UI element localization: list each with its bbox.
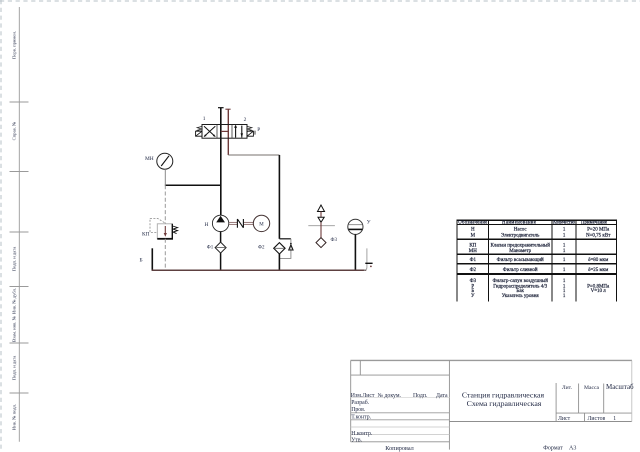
bypass check valve [289,243,293,250]
svg-text:Инв. № подл.: Инв. № подл. [12,404,17,430]
svg-text:МН: МН [145,156,154,162]
svg-text:МН: МН [469,249,477,254]
wire: drain line above relief valve (dash-dot) [164,185,166,224]
table designation column [469,227,477,299]
svg-text:Ф2: Ф2 [258,245,265,250]
right edge [631,361,633,422]
tank right port tick [365,262,372,264]
svg-text:Утв.: Утв. [351,438,362,444]
wire: return horizontal run [228,154,279,156]
paper edge dashed top [0,0,640,2]
wire: branch to gauge and relief valve [165,184,221,186]
svg-text:Р=20 МПа: Р=20 МПа [587,227,610,232]
left block row lines [351,397,450,399]
left margin ticks [10,102,29,393]
svg-text:Подп. и дата: Подп. и дата [12,356,17,381]
svg-text:δ=25 мкм: δ=25 мкм [588,268,609,273]
tank right wall [364,248,367,270]
table note column [586,227,611,294]
wire: F2 to tank [278,254,280,270]
svg-text:Обозначение: Обозначение [458,221,487,226]
svg-text:Пров.: Пров. [351,407,366,413]
shaft coupling [229,222,253,224]
svg-text:Примечание: Примечание [581,221,607,226]
svg-text:КП: КП [469,244,476,249]
svg-text:Манометр: Манометр [509,249,531,254]
list row texts [558,416,616,422]
svg-text:У: У [471,294,475,299]
svg-text:Копировал: Копировал [385,445,413,452]
table verticals [456,220,458,301]
svg-text:Фильтр сливной: Фильтр сливной [503,268,538,273]
coupling N symbol [237,219,243,228]
svg-text:1: 1 [613,416,616,422]
line above list row [556,412,632,414]
line under list row [449,421,631,423]
valve right spring [247,126,252,131]
svg-text:Ф2: Ф2 [470,268,477,273]
svg-text:Справ. №: Справ. № [12,121,17,140]
pump N [212,215,228,231]
svg-text:Инв. № дубл.: Инв. № дубл. [12,288,17,314]
table line under F2 row [457,273,618,275]
table header underline [457,223,618,225]
valve left position crossed arrows [204,126,215,136]
svg-text:Электродвигатель: Электродвигатель [501,233,540,238]
relief valve pilot line (dashed) [150,218,164,232]
wire: gauge stem [164,169,166,185]
svg-text:Изм.Лист: Изм.Лист [351,393,375,399]
filter F2 [274,243,285,254]
manometer MN [157,153,173,169]
title block bottom (left part) [351,441,450,443]
wire: port A line through valve down to pump [218,108,224,216]
svg-text:Подп. и дата: Подп. и дата [12,247,17,272]
svg-text:Т.контр.: Т.контр. [351,415,371,421]
svg-text:Р: Р [257,127,260,133]
valve right position parallel arrows [234,125,243,138]
relief valve KP body [157,224,173,239]
svg-text:Формат: Формат [543,445,563,451]
title block izm column stub [359,361,361,376]
table qty column [563,227,566,299]
table line under MN row [457,253,618,255]
wire: drain below relief valve (dash-dot) [164,239,166,270]
list/listov divider [584,413,586,421]
svg-text:А3: А3 [569,445,576,451]
svg-text:Масштаб: Масштаб [606,383,634,391]
svg-text:Наименование: Наименование [502,221,536,226]
level gauge U [348,219,363,234]
svg-text:М: М [471,233,476,238]
F2 bypass loop [279,238,291,240]
svg-text:Перв. примен.: Перв. примен. [12,31,17,59]
wire: return drop to filter F2 [278,155,280,239]
svg-text:Ф1: Ф1 [470,258,477,263]
wire: port B line through valve [225,109,230,155]
svg-text:Количество: Количество [553,221,576,226]
tank lid line [308,225,335,227]
svg-text:Н: Н [471,227,475,232]
wire: pump suction [220,232,222,243]
table line under F1 row [457,263,618,265]
svg-text:Ф3: Ф3 [331,238,338,243]
title block left edge [350,361,352,442]
svg-text:Н: Н [205,222,209,228]
motor M [253,215,269,231]
title block left/centre divider [448,361,450,450]
svg-text:Указатель уровня: Указатель уровня [502,294,540,299]
lit/massa divider [578,384,580,414]
svg-text:№ докум.: № докум. [378,393,402,399]
wire: F1 to tank [220,253,222,270]
svg-text:V=10 л: V=10 л [591,289,607,294]
svg-text:Н.контр.: Н.контр. [351,431,373,437]
directional valve R 4/3 body [202,125,247,139]
svg-text:Листов: Листов [588,416,606,422]
left margin column line [18,7,20,442]
relief valve arrow [164,226,167,237]
lit massa masshtab headers [562,383,634,391]
svg-text:Взам. инв. №: Взам. инв. № [12,315,17,342]
table line under M row [457,238,618,240]
valve right solenoid 2 [247,131,255,137]
filter F1 [215,242,226,253]
svg-text:1: 1 [203,116,206,122]
title block second line [351,374,450,376]
table name column [490,227,550,299]
title block top line [351,359,633,361]
svg-text:Ф1: Ф1 [207,246,214,251]
svg-text:КП: КП [142,231,150,237]
svg-text:Клапан предохранительный: Клапан предохранительный [490,244,550,249]
svg-text:Лист: Лист [558,416,571,422]
paper edge dashed left [0,0,2,452]
svg-text:2: 2 [244,117,247,123]
svg-text:δ=80 мкм: δ=80 мкм [588,258,609,263]
valve left solenoid 1 [196,131,202,136]
svg-text:Подп.: Подп. [413,393,428,399]
title block centre/right divider [555,383,557,422]
wire: level gauge to tank [354,234,356,270]
svg-text:Разраб.: Разраб. [351,399,370,406]
svg-text:Б: Б [140,258,143,264]
valve left spring [197,126,202,131]
svg-text:Насос: Насос [514,227,528,232]
svg-text:Станция гидравлическая: Станция гидравлическая [462,390,545,399]
svg-text:Схема гидравлическая: Схема гидравлическая [467,399,542,408]
table header texts [458,221,607,226]
svg-text:М: М [259,223,264,228]
relief valve spring [173,226,178,234]
svg-text:У: У [367,219,371,225]
svg-text:N=0,75 кВт: N=0,75 кВт [586,233,611,238]
massa/masshtab divider [603,384,605,414]
valve centre position P-T link [221,130,229,132]
tank B left wall [151,248,153,270]
svg-text:Масса: Масса [584,385,599,391]
table top border [457,219,618,221]
title block header row texts [351,393,448,444]
svg-text:Лит.: Лит. [562,385,573,391]
svg-text:Дата: Дата [436,393,448,399]
svg-text:Фильтр всасывающий: Фильтр всасывающий [497,258,544,263]
breather filter F3 [316,205,326,248]
tank bottom [152,269,367,271]
